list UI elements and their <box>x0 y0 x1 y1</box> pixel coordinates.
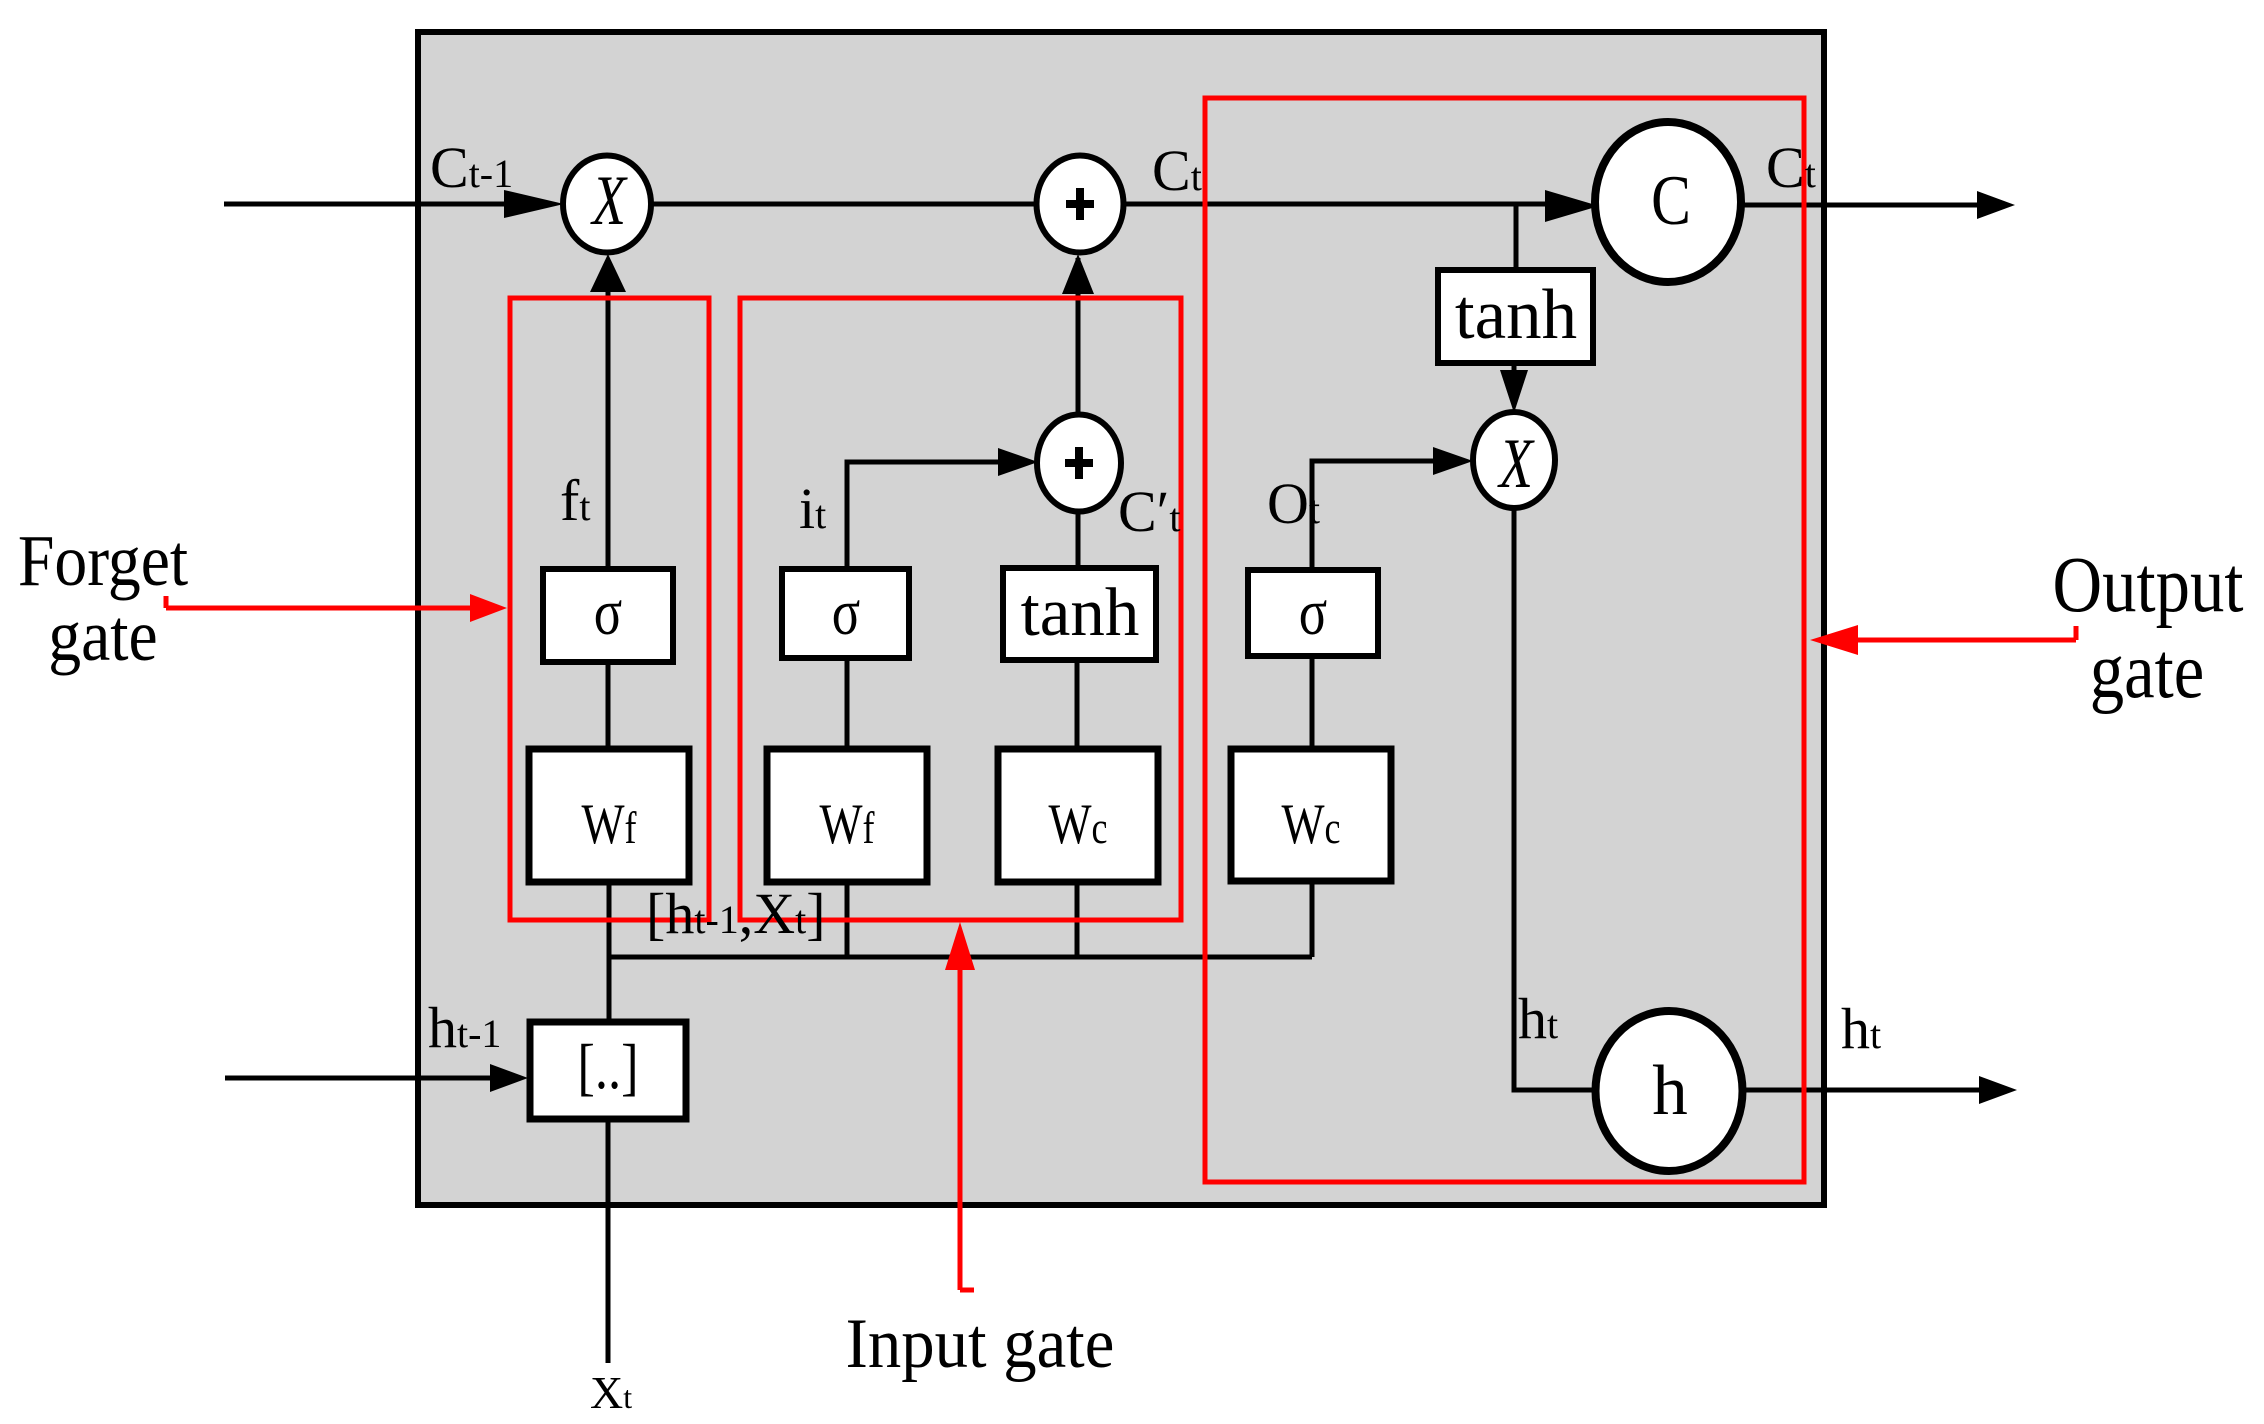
adder +1 <box>1037 156 1124 253</box>
hidden state node h <box>1596 1011 1743 1171</box>
wire: X1 to +1 <box>607 202 1080 207</box>
wire: tanh down to X2 <box>1512 364 1517 372</box>
svg-text:[..]: [..] <box>577 1031 638 1102</box>
concat box [..] <box>530 1022 686 1119</box>
sigma box forget <box>543 569 673 662</box>
svg-text:Input gate: Input gate <box>846 1304 1115 1382</box>
wire: h out ht <box>1740 1088 1982 1093</box>
input gate red frame <box>740 298 1181 920</box>
wire: bus up to Wc input <box>1075 880 1080 957</box>
wire: bus up to Wf input <box>845 880 850 957</box>
wire: +2 up to +1 <box>1076 258 1081 418</box>
wire: ft vertical to X1 <box>606 260 611 568</box>
svg-text:σ: σ <box>832 575 860 648</box>
wire: tanh-i up to +2 <box>1076 505 1081 568</box>
wire: junction down to tanh <box>1514 204 1519 270</box>
svg-text:gate: gate <box>48 596 157 677</box>
wire: +1 to C <box>1080 202 1560 207</box>
svg-text:Output: Output <box>2053 542 2244 629</box>
label Forget gate <box>18 521 188 602</box>
wire: sigma-i to Wf <box>845 660 850 750</box>
label Input gate <box>846 1304 1115 1382</box>
red arrow to forget gate <box>166 606 474 611</box>
svg-text:C: C <box>1651 162 1691 240</box>
cell state node C <box>1595 122 1741 282</box>
wire: Xt input vertical <box>606 1120 611 1363</box>
svg-text:h: h <box>1652 1052 1688 1130</box>
wire: tanh-i to Wc <box>1075 660 1080 750</box>
svg-text:Wf: Wf <box>819 793 874 856</box>
Wf box forget <box>529 749 689 882</box>
svg-text:gate: gate <box>2090 628 2204 715</box>
wire: Wf down to concat box <box>607 880 612 1022</box>
wire: C out Ct <box>1740 203 1980 208</box>
Wc box output <box>1231 749 1391 881</box>
wire: sigma-o to Wc <box>1310 658 1315 750</box>
svg-text:ht: ht <box>1841 996 1881 1061</box>
red arrow to output gate <box>1850 638 2076 643</box>
Wf box input <box>767 749 927 882</box>
red arrow to input gate <box>958 950 963 1290</box>
wire: sigma-f to Wf <box>606 660 611 750</box>
svg-text:σ: σ <box>594 575 622 648</box>
tanh box input <box>1003 568 1156 660</box>
adder +2 <box>1037 415 1121 512</box>
svg-text:tanh: tanh <box>1455 276 1577 354</box>
label Output gate <box>2053 542 2244 629</box>
wire: it from sigma to +2 <box>847 462 1002 568</box>
svg-text:Wc: Wc <box>1048 793 1107 856</box>
wire: bus up to Wc output <box>1310 880 1315 957</box>
svg-text:Wf: Wf <box>581 793 636 856</box>
svg-text:Xt: Xt <box>590 1367 632 1418</box>
multiplier X2 <box>1473 412 1555 508</box>
Wc box input <box>998 749 1158 882</box>
svg-text:X: X <box>589 160 627 239</box>
LSTM cell body <box>418 32 1824 1205</box>
forget gate red frame <box>510 298 709 920</box>
wire: X2 down and to h <box>1514 506 1600 1090</box>
tanh box upper <box>1438 270 1593 363</box>
svg-text:tanh: tanh <box>1021 574 1140 650</box>
wire: Ot from sigma to X2 <box>1312 461 1437 570</box>
wire: ht-1 input <box>225 1076 494 1081</box>
svg-text:X: X <box>1496 423 1534 502</box>
sigma box output <box>1248 570 1378 656</box>
svg-text:Forget: Forget <box>18 521 188 602</box>
multiplier X1 <box>563 156 651 253</box>
wire: cell state input Ct-1 <box>224 202 510 207</box>
wire: concat bus <box>609 955 1312 960</box>
output gate red frame <box>1205 98 1804 1182</box>
svg-text:Wc: Wc <box>1281 793 1340 856</box>
svg-text:σ: σ <box>1299 575 1327 648</box>
sigma box input <box>782 569 909 658</box>
